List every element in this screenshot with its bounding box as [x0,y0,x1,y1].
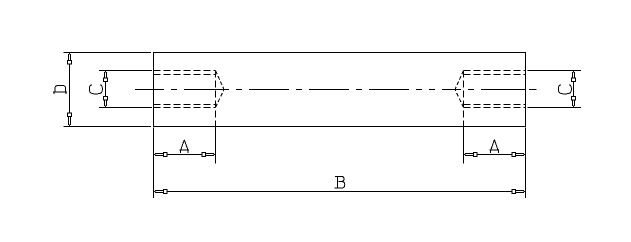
right drill cone lower [455,90,464,108]
A/B left extension vertical (rod left edge extended) [153,128,155,199]
centerline [135,89,537,91]
label C right (rotated) [558,85,571,94]
dimension A right line [477,154,512,156]
label B [335,176,345,188]
dimension C right line [573,82,575,98]
dimension C right extension bottom [528,107,582,109]
dimension D arrow down [68,113,72,127]
dimension B arrow right [512,190,526,194]
dimension A right arrow left [464,153,478,157]
left thread end hidden vertical [215,71,217,127]
dimension A left arrow right [202,153,216,157]
A right thread-end extension below rod [463,127,465,164]
right thread hidden line bottom outer [464,107,526,109]
label A left [180,140,189,153]
left drill cone lower [216,90,225,108]
left drill cone upper [216,71,225,90]
right thread end hidden vertical [463,71,465,127]
A left thread-end extension below rod [215,127,217,164]
right thread hidden line top inner [464,74,526,76]
dimension C right arrow up [572,71,576,82]
rod body outline [154,53,526,127]
dimension B arrow left [154,190,168,194]
left thread hidden line bottom outer [154,107,216,109]
dimension C right arrow down [572,97,576,108]
right thread hidden line top outer [464,70,526,72]
dimension C right extension top [528,70,582,72]
dimension D extension line top [64,52,152,54]
dimension C left extension top [99,70,152,72]
dimension D extension line bottom [64,126,152,128]
dimension C left arrow down [104,97,108,108]
dimension A right arrow right [512,153,526,157]
label A right [490,140,499,153]
left thread hidden line bottom inner [154,104,216,106]
dimension A left line [167,154,202,156]
dimension B line [167,191,512,193]
left thread hidden line top outer [154,70,216,72]
right drill cone upper [455,71,464,90]
dimension D line [69,64,71,113]
dimension C left extension bottom [99,107,152,109]
dimension C left line [105,82,107,98]
label C left (rotated) [89,85,102,94]
right thread hidden line bottom inner [464,104,526,106]
A/B right extension vertical (rod right edge extended) [525,128,527,199]
dimension A left arrow left [154,153,168,157]
dimension C left arrow up [104,71,108,82]
dimension D arrow up [68,53,72,65]
label D (rotated) [53,85,67,93]
left thread hidden line top inner [154,74,216,76]
